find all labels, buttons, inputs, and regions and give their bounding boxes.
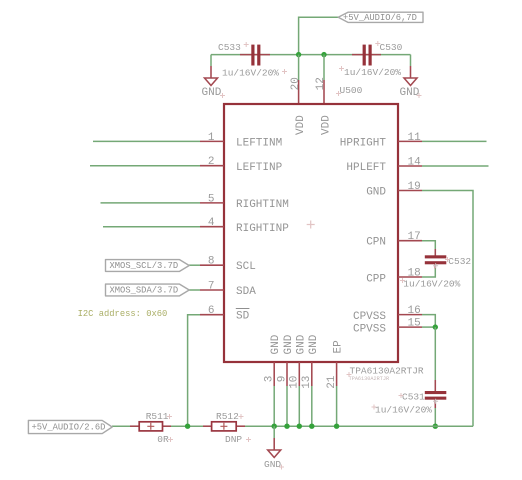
resistor R512 (203, 411, 245, 445)
origin cross GND top-left (220, 93, 225, 98)
pin number 5 (208, 193, 215, 205)
pin number 16 (408, 305, 421, 317)
pin number 2 (208, 156, 215, 168)
origin cross GND top-right (417, 93, 422, 98)
svg-text:R511: R511 (146, 411, 169, 422)
pin number 18 (408, 268, 421, 280)
pin number 4 (208, 217, 215, 229)
node junction pin3 (272, 424, 277, 429)
pin name VDD (pin20) (295, 115, 307, 135)
origin cross C533 value (282, 69, 287, 74)
capacitor C532 (403, 255, 471, 289)
node junction C531 bottom (433, 424, 438, 429)
wire pin 21 EP (336, 362, 338, 426)
origin cross TPA name (347, 372, 352, 377)
svg-text:14: 14 (408, 157, 422, 169)
svg-text:GND: GND (308, 334, 320, 354)
origin cross R511 value (168, 437, 173, 442)
wire pin 9 GND (286, 362, 288, 426)
svg-text:SD: SD (236, 311, 250, 323)
svg-text:20: 20 (290, 77, 302, 90)
origin cross C530 name (375, 41, 380, 46)
svg-text:C533: C533 (218, 42, 241, 53)
node junction pin21 (334, 424, 339, 429)
svg-text:4: 4 (208, 217, 215, 229)
svg-text:18: 18 (408, 268, 421, 280)
svg-text:13: 13 (301, 376, 313, 389)
ground (top right) (400, 55, 420, 99)
pin number 3 (264, 376, 276, 383)
svg-text:21: 21 (326, 375, 338, 389)
wire CPVSS down to C531 (434, 327, 436, 391)
pin number 11 (408, 132, 422, 144)
wire top +5V label to junction (299, 17, 338, 54)
pin number 9 (276, 376, 288, 383)
svg-text:2: 2 (208, 156, 215, 168)
node junction pin13 (309, 424, 314, 429)
wire bottom ground rail (112, 425, 473, 427)
wire pin 8 SCL (189, 264, 224, 266)
wire pin 18 CPP (398, 264, 435, 277)
wire red lead C533 (240, 54, 270, 56)
origin cross C530 value (339, 66, 344, 71)
pin name CPN (366, 237, 386, 249)
svg-text:TPA6130A2RTJR: TPA6130A2RTJR (349, 376, 389, 382)
svg-text:GND: GND (283, 334, 295, 354)
origin cross C532 name (445, 257, 450, 262)
IC origin cross (307, 221, 315, 229)
wire pin 3 GND (273, 362, 275, 426)
origin cross R512 value (246, 437, 251, 442)
node junction VDD right (321, 52, 326, 57)
svg-text:10: 10 (289, 376, 301, 389)
pin name EP (333, 340, 345, 354)
pin number 21 (326, 375, 338, 389)
svg-text:LEFTINP: LEFTINP (236, 162, 283, 174)
ground (bottom) (264, 426, 281, 470)
node junction pin10 (297, 424, 302, 429)
wire pin 2 LEFTINP (90, 165, 224, 167)
origin cross U500 (336, 91, 341, 96)
origin cross C532 center (433, 263, 438, 268)
wire pin 6 SD (188, 315, 224, 427)
wire capacitor row (211, 54, 411, 56)
net label XMOS_SDA/3.7D (106, 284, 190, 296)
wire red lead C530 (352, 54, 381, 56)
svg-text:+5V_AUDIO/2.6D: +5V_AUDIO/2.6D (32, 422, 106, 432)
origin cross C531 name (399, 393, 404, 398)
svg-text:12: 12 (315, 77, 327, 90)
op-amp U500 TPA6130A2RTJR (IC body) (224, 85, 424, 382)
pin name CPVSS (pin15) (353, 323, 386, 335)
svg-text:CPP: CPP (366, 273, 386, 285)
wire pin 4 RIGHTINP (103, 226, 224, 228)
pin name RIGHTINM (236, 199, 289, 211)
svg-text:CPVSS: CPVSS (353, 323, 386, 335)
svg-text:XMOS_SCL/3.7D: XMOS_SCL/3.7D (110, 261, 179, 271)
pin name SD with overline (236, 309, 250, 323)
origin cross C532 value (400, 278, 405, 283)
svg-text:5: 5 (208, 193, 215, 205)
wire pin 7 SDA (189, 289, 224, 291)
svg-text:C532: C532 (448, 256, 471, 267)
svg-text:VDD: VDD (295, 115, 307, 135)
wire pin 12 (323, 55, 325, 104)
I2C address note (78, 309, 168, 319)
pin name LEFTINM (236, 138, 282, 150)
pin number 15 (408, 318, 421, 330)
wire pin 19 GND to bottom rail (398, 191, 473, 427)
node junction CPVSS (433, 324, 438, 329)
wire pin 16 CPVSS (398, 315, 435, 328)
pin name GND (pin19) (366, 187, 386, 199)
svg-text:CPN: CPN (366, 237, 386, 249)
wire C531 down to bottom rail (434, 400, 436, 427)
svg-text:16: 16 (408, 305, 421, 317)
svg-text:GND: GND (400, 87, 420, 99)
pin number 14 (408, 157, 422, 169)
ground (top left) (202, 55, 222, 99)
wire pin 11 HPRIGHT (398, 140, 487, 142)
pin number 19 (408, 181, 421, 193)
origin cross GND bottom (279, 465, 284, 470)
pin number 6 (208, 305, 215, 317)
net label +5V_AUDIO/2.6D (28, 420, 112, 433)
pin name VDD (pin12) (320, 115, 332, 135)
node junction pin9 (284, 424, 289, 429)
pin number 12 (315, 77, 327, 90)
svg-text:HPRIGHT: HPRIGHT (340, 138, 387, 150)
wire pin 5 RIGHTINM (101, 202, 225, 204)
pin number 10 (289, 376, 301, 389)
resistor R511 (130, 411, 171, 445)
wire pin 20 (298, 55, 300, 104)
svg-text:DNP: DNP (225, 434, 242, 445)
svg-text:1u/16V/20%: 1u/16V/20% (403, 279, 460, 290)
svg-text:9: 9 (276, 376, 288, 383)
wire pin 15 CPVSS (398, 326, 435, 328)
pin name GND (pin3) (270, 334, 282, 354)
wire pin 1 LEFTINM (93, 140, 224, 142)
capacitor C531 (375, 391, 446, 416)
pin name CPVSS (pin16) (353, 311, 386, 323)
svg-text:1: 1 (208, 132, 215, 144)
wire pin 13 GND (311, 362, 313, 426)
net label +5V_AUDIO/6,7D (338, 12, 423, 23)
pin name SDA (236, 286, 256, 298)
svg-text:+5V_AUDIO/6,7D: +5V_AUDIO/6,7D (343, 13, 417, 23)
pin name GND (pin13) (308, 334, 320, 354)
capacitor C533 (218, 42, 279, 79)
wire pin 14 HPLEFT (398, 165, 489, 167)
svg-text:C531: C531 (402, 392, 425, 403)
wire pin 17 CPN (398, 241, 435, 256)
node junction SD / R511 / R512 (185, 424, 190, 429)
pin number 8 (208, 256, 215, 268)
svg-text:SDA: SDA (236, 286, 256, 298)
capacitor C530 (344, 42, 403, 78)
svg-text:0R: 0R (157, 434, 169, 445)
pin number 17 (408, 231, 421, 243)
svg-text:RIGHTINP: RIGHTINP (236, 223, 289, 235)
svg-text:8: 8 (208, 256, 215, 268)
pin number 13 (301, 376, 313, 389)
pin name CPP (366, 273, 386, 285)
svg-text:SCL: SCL (236, 261, 256, 273)
wire pin 10 GND (298, 362, 300, 426)
svg-text:7: 7 (208, 281, 215, 293)
svg-text:6: 6 (208, 305, 215, 317)
pin name HPRIGHT (340, 138, 387, 150)
origin cross C531 value (372, 405, 377, 410)
origin cross R512 name (239, 414, 244, 419)
node junction VDD left (296, 52, 301, 57)
svg-text:GND: GND (295, 334, 307, 354)
net label XMOS_SCL/3.7D (106, 260, 190, 272)
svg-text:11: 11 (408, 132, 422, 144)
svg-text:RIGHTINM: RIGHTINM (236, 199, 289, 211)
svg-text:GND: GND (202, 87, 222, 99)
pin number 1 (208, 132, 215, 144)
svg-text:1u/16V/20%: 1u/16V/20% (375, 405, 432, 416)
origin cross C533 name (244, 42, 249, 47)
svg-text:1u/16V/20%: 1u/16V/20% (344, 67, 401, 78)
svg-text:VDD: VDD (320, 115, 332, 135)
pin name HPLEFT (346, 162, 386, 174)
svg-text:C530: C530 (380, 42, 403, 53)
svg-text:U500: U500 (340, 85, 363, 96)
svg-text:I2C address: 0x60: I2C address: 0x60 (78, 309, 168, 319)
svg-text:19: 19 (408, 181, 421, 193)
pin number 20 (290, 77, 302, 90)
svg-text:GND: GND (264, 459, 281, 470)
svg-text:GND: GND (366, 187, 386, 199)
svg-text:1u/16V/20%: 1u/16V/20% (222, 68, 279, 79)
svg-text:R512: R512 (216, 411, 239, 422)
pin name GND (pin10) (295, 334, 307, 354)
pin name LEFTINP (236, 162, 283, 174)
svg-text:LEFTINM: LEFTINM (236, 138, 282, 150)
pin name SCL (236, 261, 256, 273)
svg-text:GND: GND (270, 334, 282, 354)
svg-text:XMOS_SDA/3.7D: XMOS_SDA/3.7D (110, 285, 179, 295)
origin cross R511 name (167, 414, 172, 419)
pin number 7 (208, 281, 215, 293)
svg-text:17: 17 (408, 231, 421, 243)
origin cross C531 center (433, 399, 438, 404)
svg-text:CPVSS: CPVSS (353, 311, 386, 323)
pin name RIGHTINP (236, 223, 289, 235)
pin name GND (pin9) (283, 334, 295, 354)
svg-text:3: 3 (264, 376, 276, 383)
svg-text:HPLEFT: HPLEFT (346, 162, 386, 174)
svg-text:EP: EP (333, 340, 345, 354)
svg-text:15: 15 (408, 318, 421, 330)
